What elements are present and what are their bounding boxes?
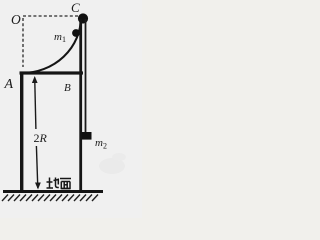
dimension arrow 2R upper segment (35, 78, 36, 130)
ground line (3, 190, 103, 193)
svg-text:B: B (64, 82, 71, 94)
dimension arrow 2R lower segment (36, 146, 37, 188)
svg-text:C: C (71, 0, 80, 15)
ball m1 on track (72, 29, 80, 37)
string from pulley to m2 (85, 19, 87, 133)
paper background (0, 0, 142, 218)
ground label 地面 (drawn strokes) (47, 178, 72, 189)
dashed radius OA (vertical) (22, 18, 24, 67)
地 (49, 178, 51, 188)
platform AB (20, 71, 84, 74)
svg-text:O: O (11, 12, 21, 27)
dashed radius OC (horizontal) (23, 15, 78, 17)
curved track arc A to C (22, 17, 81, 73)
right pole (79, 19, 82, 192)
block m2 (82, 132, 92, 140)
svg-text:A: A (4, 77, 14, 92)
面 (60, 178, 71, 180)
svg-text:2R: 2R (34, 131, 48, 145)
left pole (20, 73, 23, 192)
pulley at C (78, 13, 88, 23)
ground hatching (2, 195, 98, 202)
